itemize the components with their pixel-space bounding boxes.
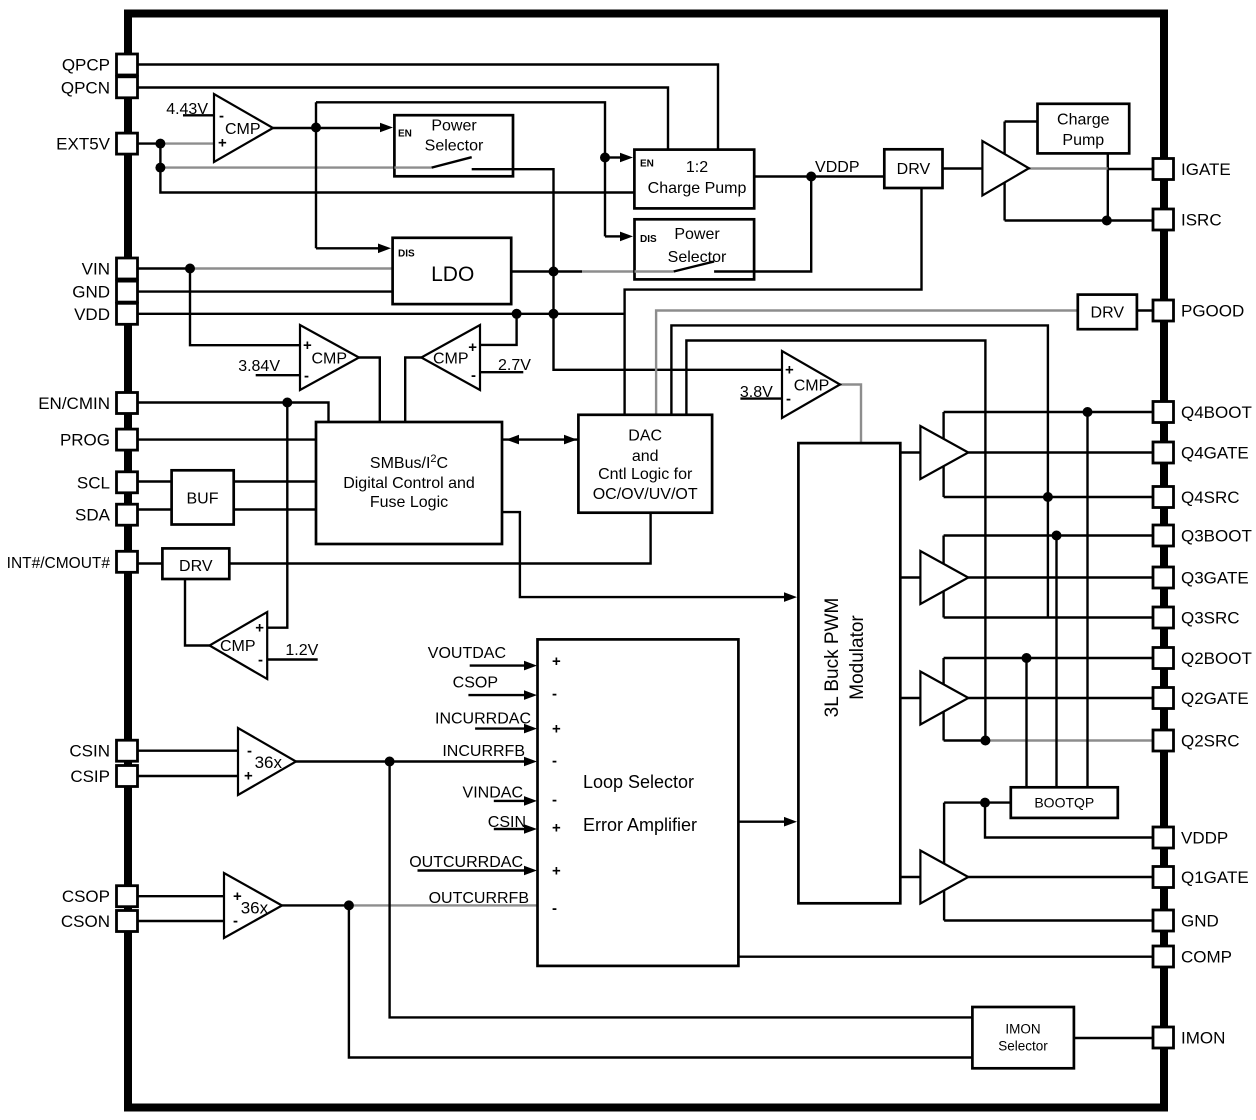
wire SMBus to modulator [502,512,784,597]
svg-text:CMP: CMP [312,351,348,368]
svg-text:-: - [304,368,309,385]
svg-text:+: + [244,768,253,785]
pin Q1GATE [1153,867,1174,888]
svg-text:+: + [303,337,312,354]
block BOOTQP [1011,787,1118,818]
wire VOUTDAC input [470,664,524,666]
svg-text:COMP: COMP [1181,948,1232,967]
block charge pump U4 [1038,104,1130,154]
wire Q4BOOT to BOOTQP [1086,412,1088,787]
svg-text:PROG: PROG [60,431,110,450]
wire BUF to SMBus lower [234,508,316,510]
svg-text:Charge Pump: Charge Pump [648,180,747,197]
wire CSON pin to amp 2 [137,920,224,922]
node VDD junction 1 [512,309,522,319]
wire LDO output [511,270,582,272]
svg-text:CSIN: CSIN [69,742,110,761]
svg-text:and: and [632,448,659,465]
svg-text:SMBus/I2C: SMBus/I2C [370,453,448,472]
node amp 1 output junction [385,757,395,767]
svg-text:DIS: DIS [640,234,657,245]
svg-text:4.43V: 4.43V [166,101,208,118]
wire EN/CMIN to CMP E + input [267,403,287,628]
arrowhead into modulator [784,592,797,602]
svg-text:SCL: SCL [77,473,110,492]
wire CMP A output to EN arrow [316,127,381,129]
svg-text:Q3BOOT: Q3BOOT [1181,527,1252,546]
node VDD junction 2 [549,309,559,319]
svg-text:+: + [468,339,477,356]
switch input power selector 1 (gray) [394,166,431,168]
node EXT5V junction 1 [155,139,165,149]
wire Q2BOOT to BOOTQP [1025,658,1027,787]
svg-text:Cntl Logic for: Cntl Logic for [598,466,693,483]
pin SDA [117,504,138,525]
svg-text:+: + [785,362,794,379]
arrowhead INCURRFB [524,757,537,767]
svg-text:CMP: CMP [225,121,261,138]
pin Q3SRC [1153,607,1174,628]
block power selector 2 [635,219,755,279]
svg-text:2.7V: 2.7V [498,357,531,374]
wire Q3BOOT [944,534,1153,536]
wire VDDP pin connection [985,803,1153,838]
pin VIN [117,258,138,279]
block power selector 1 [394,115,513,176]
svg-text:Loop Selector: Loop Selector [583,772,694,792]
wire modulator to Q3 driver [900,576,920,578]
svg-text:Power: Power [674,226,720,243]
svg-text:-: - [786,391,791,408]
svg-text:Modulator: Modulator [847,615,868,700]
wire modulator to Q1 driver [900,876,920,878]
wire driver amp to charge pump [1005,120,1038,122]
wire loop selector to modulator [738,821,784,823]
svg-text:1:2: 1:2 [686,159,708,176]
svg-text:INT#/CMOUT#: INT#/CMOUT# [7,555,111,572]
switch input power selector 2 (gray) [635,270,674,272]
wire stub to EN arrow [605,156,621,158]
svg-text:VOUTDAC: VOUTDAC [428,645,506,662]
svg-text:IMON: IMON [1005,1022,1040,1037]
svg-text:VINDAC: VINDAC [463,784,523,801]
pin ISRC [1153,209,1174,230]
amplifier Q4 gate driver [920,426,968,479]
svg-text:Digital Control and: Digital Control and [343,475,475,492]
wire Q1GATE [968,876,1153,878]
switch output power selector 2 [714,270,754,272]
svg-text:CSIP: CSIP [70,767,110,786]
svg-text:-: - [552,900,557,917]
pin GND [117,281,138,302]
node Q2SRC junction [980,736,990,746]
pin Q4GATE [1153,442,1174,463]
wire VINDAC input [494,800,524,802]
wire 4.43V ref to CMP A - input [183,114,214,116]
node EXT5V junction 2 [155,163,165,173]
svg-text:Q2SRC: Q2SRC [1181,732,1240,751]
wire VDD to CMP C + input [480,314,517,345]
svg-text:Q2GATE: Q2GATE [1181,689,1249,708]
amplifier Q2 gate driver [920,672,968,725]
svg-text:DAC: DAC [628,428,662,445]
block SMBus digital control [316,422,502,544]
wire DAC top rail to Q4SRC/Q3SRC [671,325,1048,617]
switch blade power selector 2 [674,262,714,272]
svg-text:PGOOD: PGOOD [1181,302,1244,321]
arrowhead into 1:2 charge pump EN [620,153,633,163]
op-amp CMP A 4.43V comparator [214,94,273,162]
node charge pump EN junction [600,153,610,163]
wire EXT5V to power selector 1 switch (gray) [160,166,431,168]
wire amp 1 output to IMON selector [390,762,973,1018]
wire BOOTQP to Q1 driver [944,801,1011,803]
svg-text:CSON: CSON [61,912,110,931]
svg-text:CSOP: CSOP [453,675,498,692]
svg-text:Q2BOOT: Q2BOOT [1181,649,1252,668]
wire Q4 driver boot rail [942,412,944,497]
pin CSOP [117,886,138,907]
wire EXT5V to 1:2 charge pump input [160,168,634,193]
pin Q4SRC [1153,487,1174,508]
wire Q4SRC [944,496,1153,498]
svg-text:IMON: IMON [1181,1029,1225,1048]
wire SDA to BUF [137,508,172,510]
pin IGATE [1153,159,1174,180]
svg-text:Fuse Logic: Fuse Logic [370,494,448,511]
svg-text:Error Amplifier: Error Amplifier [583,815,697,835]
pin CSIP [117,766,138,787]
wire stub to DIS arrow [605,235,621,237]
wire Q2BOOT [944,657,1153,659]
svg-text:OUTCURRFB: OUTCURRFB [429,890,529,907]
svg-text:DRV: DRV [1091,305,1125,322]
wire CMP B output to SMBus box [359,358,380,423]
wire Q2 driver boot rail [942,658,944,741]
wire Q3GATE [968,576,1153,578]
node VDDP junction [806,172,816,182]
node Q4BOOT junction [1083,407,1093,417]
node Q4SRC junction [1043,492,1053,502]
wire Q2SRC black segment [944,739,986,741]
wire Q3 driver boot rail [942,536,944,618]
wire to charge pump EN [316,102,605,157]
svg-text:-: - [258,652,263,669]
svg-text:EXT5V: EXT5V [56,135,111,154]
node Q2BOOT junction [1022,653,1032,663]
pin SCL [117,472,138,493]
node amp 2 output junction [344,900,354,910]
pin Q2GATE [1153,688,1174,709]
wire CMP D output to modulator (gray) [840,385,861,444]
arrowhead into power selector 2 DIS [620,232,633,242]
svg-text:BUF: BUF [187,491,219,508]
svg-text:OC/OV/UV/OT: OC/OV/UV/OT [593,486,698,503]
svg-text:+: + [552,653,561,670]
switch output power selector 1 [472,168,513,170]
svg-text:CMP: CMP [220,638,256,655]
wire IMON selector to pin [1074,1037,1153,1039]
wire INCURRDAC input [475,727,524,729]
svg-text:-: - [552,753,557,770]
pin QPCN [117,77,138,98]
wire CSOP input [468,694,524,696]
wire CSIN pin to amp 1 [137,750,238,752]
svg-text:SDA: SDA [75,506,111,525]
svg-text:INCURRFB: INCURRFB [442,743,525,760]
pin Q4BOOT [1153,402,1174,423]
svg-text:QPCP: QPCP [62,56,110,75]
svg-text:GND: GND [72,283,110,302]
svg-text:Q3GATE: Q3GATE [1181,569,1249,588]
svg-text:+: + [233,888,242,905]
svg-text:CMP: CMP [794,378,830,395]
wire ISRC [1005,219,1153,221]
svg-text:QPCN: QPCN [61,78,110,97]
arrowhead OUTCURRDAC [524,866,537,876]
wire amp 2 output to IMON selector [349,905,973,1057]
svg-text:VIN: VIN [82,260,110,279]
wire current amp 2 output [282,904,349,906]
svg-text:-: - [552,686,557,703]
arrowhead VINDAC [524,796,537,806]
wire VIN to CMP B + input [190,269,300,346]
block DRV interrupt driver U6 [162,548,229,579]
pin Q2BOOT [1153,648,1174,669]
wire Q3SRC [944,616,1153,618]
amplifier Q3 gate driver [920,551,968,604]
svg-text:Q4GATE: Q4GATE [1181,444,1249,463]
pin INT#/CMOUT# [117,551,138,572]
pin Q3GATE [1153,567,1174,588]
svg-text:CSOP: CSOP [62,887,110,906]
node Q3BOOT junction [1052,531,1062,541]
pin IMON [1153,1027,1174,1048]
block DRV gate driver U3 [884,149,942,188]
svg-text:IGATE: IGATE [1181,160,1231,179]
wire SCL to BUF [137,480,172,482]
svg-text:Selector: Selector [425,137,484,154]
arrowhead into SMBus box [506,435,519,445]
svg-text:Pump: Pump [1062,132,1104,149]
svg-text:Q1GATE: Q1GATE [1181,868,1249,887]
svg-text:DRV: DRV [179,558,213,575]
wire BUF to SMBus upper [234,480,316,482]
node VIN junction [185,264,195,274]
svg-text:+: + [552,721,561,738]
wire power selector 2 output to VDDP node [714,177,811,272]
svg-text:-: - [247,743,252,760]
wire DRV bottom to DAC top [625,188,922,415]
svg-text:BOOTQP: BOOTQP [1034,795,1094,811]
block 3L buck PWM modulator [798,443,900,903]
svg-text:-: - [552,792,557,809]
block DRV PGOOD driver U5 [1078,295,1137,330]
wire 3.84V ref to CMP B - input [256,374,300,376]
block 1:2 charge pump U2 [634,150,754,209]
wire OUTCURRFB input (gray) [349,904,538,906]
arrowhead INCURRDAC [524,724,537,734]
svg-text:+: + [552,820,561,837]
pin EN/CMIN [117,393,138,414]
node BOOTQP junction [980,798,990,808]
wire DRV to CMP E output [185,579,210,646]
block BUF buffer [172,470,234,524]
wire Q1 driver rail [943,803,945,921]
pin QPCP [117,54,138,75]
wire Q4GATE [968,451,1153,453]
svg-text:3.84V: 3.84V [238,358,280,375]
wire modulator to Q2 driver [900,697,920,699]
node EN/CMIN junction [282,398,292,408]
wire IGATE to pin [1108,168,1153,170]
svg-text:Q4BOOT: Q4BOOT [1181,403,1252,422]
node ISRC junction [1102,216,1112,226]
wire QPCP to charge pump top [137,65,718,152]
svg-text:VDDP: VDDP [1181,829,1228,848]
wire EXT5V pin stub [137,142,160,144]
node CMP A output junction [311,123,321,133]
svg-text:VDDP: VDDP [815,159,859,176]
svg-text:LDO: LDO [431,263,474,286]
svg-text:Q3SRC: Q3SRC [1181,609,1240,628]
wire 3.8V ref to CMP D - input [740,397,782,399]
svg-text:+: + [552,863,561,880]
wire CSOP pin to amp 2 [137,895,224,897]
wire EXT5V vertical [159,144,161,168]
wire Q3BOOT to BOOTQP [1055,536,1057,788]
svg-text:3L Buck PWM: 3L Buck PWM [822,598,843,718]
pin CSIN [117,740,138,761]
block LDO regulator [393,238,512,304]
wire GND pin connection [944,919,1153,921]
pin PROG [117,429,138,450]
pin Q3BOOT [1153,525,1174,546]
wire INT#/CMOUT# to DRV [137,562,162,564]
wire 1:2 charge pump output VDDP to DRV [754,175,884,177]
wire GND to LDO [137,290,393,292]
svg-text:-: - [233,913,238,930]
wire current amp 1 output INCURRFB [296,760,524,762]
wire modulator to Q4 driver [900,451,920,453]
arrowhead CSIN [524,824,537,834]
switch blade power selector 1 [432,157,472,167]
svg-text:+: + [218,135,227,152]
arrowhead into power selector 1 EN [380,123,393,133]
pin VDDP [1153,827,1174,848]
wire DAC top rail to Q2SRC [686,341,985,741]
wire to LDO DIS arrow [316,247,379,249]
amplifier Q1 gate driver [920,851,968,904]
wire CMP E - input 1.2V ref [267,658,318,660]
wire DAC to PGOOD DRV (gray) [656,311,1078,415]
svg-text:CSIN: CSIN [488,814,526,831]
wire to power selector 2 switch (gray) [582,270,674,272]
svg-text:1.2V: 1.2V [285,642,318,659]
pin EXT5V [117,133,138,154]
wire driver amp rail [1003,122,1005,221]
svg-text:DRV: DRV [897,161,931,178]
svg-text:3.8V: 3.8V [740,384,773,401]
wire CMP A output [273,127,316,129]
block IMON selector [972,1007,1074,1068]
pin PGOOD [1153,300,1174,321]
arrowhead into DAC box [564,435,577,445]
svg-text:Power: Power [431,118,477,135]
wire OUTCURRDAC input [418,869,525,871]
amplifier IGATE driver [982,141,1029,196]
op-amp current sense amplifier 36x input [238,728,296,795]
svg-text:-: - [471,367,476,384]
pin CSON [117,911,138,932]
wire SMBus-DAC bus [502,438,578,440]
pin Q2SRC [1153,730,1174,751]
wire CMP C - input 2.7V ref [480,371,523,373]
svg-text:Q4SRC: Q4SRC [1181,488,1240,507]
op-amp CMP B 3.84V comparator [300,325,359,390]
svg-text:EN: EN [398,129,412,140]
svg-text:EN: EN [640,159,654,170]
svg-text:GND: GND [1181,912,1219,931]
op-amp CMP C 2.7V comparator [421,325,480,390]
node LDO output junction [549,267,559,277]
wire CSIN input [494,828,524,830]
op-amp current sense amplifier 36x output [224,873,282,938]
op-amp CMP E 1.2V comparator [210,612,268,679]
wire down to power selector 2 DIS [604,158,606,237]
wire CMP C output to SMBus box [405,358,421,423]
wire Q4BOOT [944,411,1153,413]
wire DRV to gate driver amp [943,167,983,169]
svg-text:VDD: VDD [74,305,110,324]
wire PGOOD DRV to pin [1137,309,1153,311]
wire VIN pin stub [137,267,190,269]
wire Q2SRC to pin (gray) [985,739,1153,741]
block loop selector error amplifier [538,639,739,966]
wire power selector 1 output to VDD node and CMP D + input [472,169,782,370]
svg-text:Charge: Charge [1057,112,1110,129]
op-amp CMP D 3.8V comparator [782,351,840,418]
wire VDD rail [137,313,625,315]
wire Q2GATE [968,697,1153,699]
wire PROG to SMBus box [137,438,316,440]
svg-text:-: - [219,108,224,125]
wire charge pump to ISRC [1107,153,1109,220]
svg-text:+: + [255,620,264,637]
wire VIN to LDO (gray) [190,267,393,269]
block DAC and control logic [578,415,712,513]
arrowhead error amp out [784,817,797,827]
wire IGATE gray segment [1029,167,1108,169]
svg-text:CMP: CMP [433,351,469,368]
svg-text:DIS: DIS [398,249,415,260]
wire CSIP pin to amp 1 [137,775,238,777]
wire QPCN to charge pump top [137,88,668,152]
wire COMP to pin [738,956,1153,958]
svg-text:ISRC: ISRC [1181,211,1222,230]
svg-text:36x: 36x [255,753,283,772]
wire EN/DIS vertical at x316 [315,102,317,248]
wire DRV to DAC bottom [229,513,650,564]
wire EN/CMIN to SMBus box [137,403,329,423]
arrowhead into LDO DIS [378,244,391,254]
pin COMP [1153,946,1174,967]
svg-text:36x: 36x [241,899,269,918]
svg-text:INCURRDAC: INCURRDAC [435,711,531,728]
arrowhead CSOP [524,690,537,700]
pin GND [1153,910,1174,931]
wire EXT5V to CMP A + input (gray) [160,142,214,144]
